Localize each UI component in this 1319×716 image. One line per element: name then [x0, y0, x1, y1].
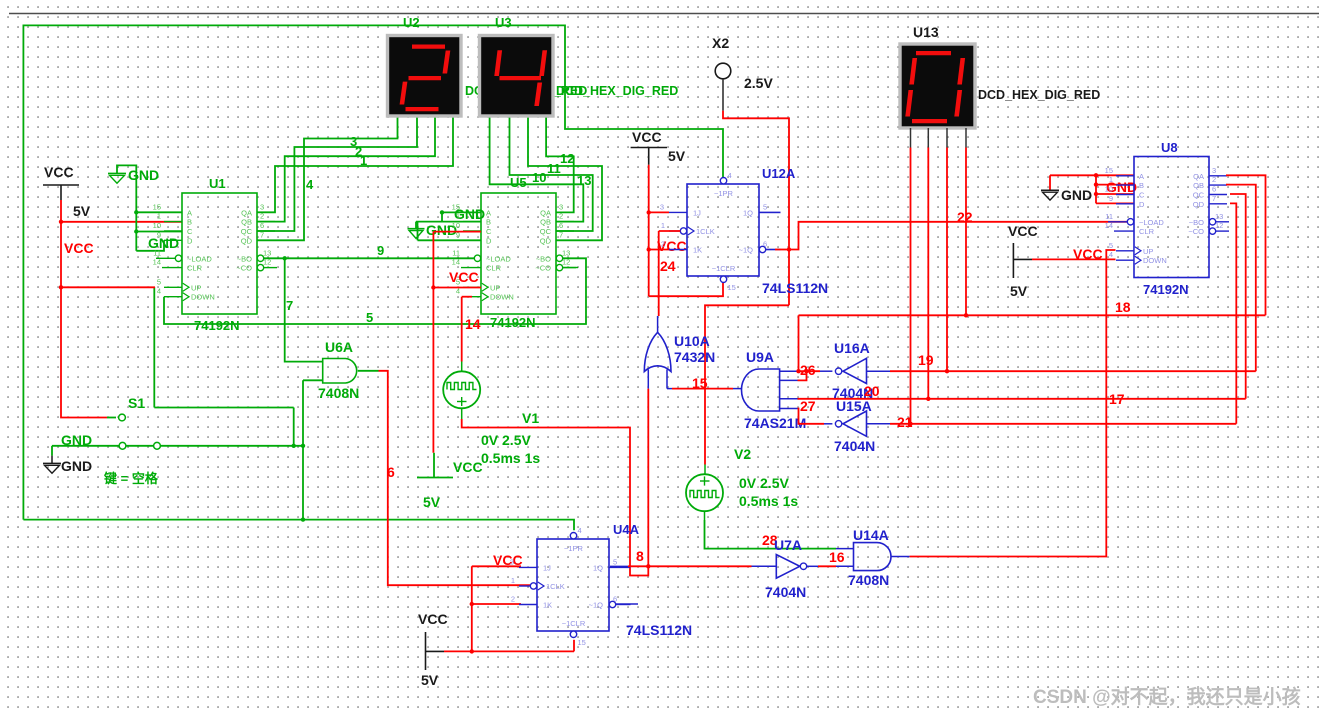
- svg-text:U8: U8: [1161, 140, 1178, 155]
- wire U14A out to U8 UP: [910, 250, 1116, 557]
- wire U1 QB to display U2 pin3: [257, 117, 435, 222]
- svg-text:1J: 1J: [693, 208, 701, 217]
- svg-text:3: 3: [510, 557, 514, 566]
- svg-text:2: 2: [511, 595, 515, 604]
- svg-text:14: 14: [452, 258, 460, 267]
- svg-text:CLR: CLR: [187, 264, 203, 273]
- svg-text:5V: 5V: [668, 148, 686, 164]
- svg-text:QA: QA: [1193, 172, 1204, 181]
- svg-text:GND: GND: [61, 432, 92, 448]
- svg-text:15: 15: [1105, 166, 1113, 175]
- svg-text:U14A: U14A: [853, 527, 889, 543]
- svg-text:DCD_HEX_DIG_RED: DCD_HEX_DIG_RED: [978, 88, 1100, 102]
- svg-text:U15A: U15A: [836, 398, 872, 414]
- svg-text:~BO: ~BO: [237, 254, 252, 263]
- svg-text:QC: QC: [241, 227, 253, 236]
- svg-text:~CO: ~CO: [236, 264, 252, 273]
- wire net 16 U7A out to U14A input B: [807, 565, 818, 567]
- svg-text:QA: QA: [241, 208, 252, 217]
- svg-text:~BO: ~BO: [1189, 218, 1204, 227]
- svg-text:U9A: U9A: [746, 349, 774, 365]
- wire U8 QA stub red extension: [1226, 174, 1230, 176]
- svg-text:VCC: VCC: [418, 611, 448, 627]
- inverter U15A 7404N (pointing left): [843, 411, 867, 436]
- svg-text:14: 14: [153, 258, 161, 267]
- svg-text:UP: UP: [490, 283, 500, 292]
- wire net 6 U6A out to U4A 1CLK: [379, 371, 531, 585]
- svg-text:4: 4: [306, 177, 314, 192]
- svg-text:3: 3: [660, 202, 664, 211]
- svg-text:0V 2.5V: 0V 2.5V: [481, 432, 531, 448]
- counter U1 74192N: [182, 193, 257, 314]
- svg-text:1CLK: 1CLK: [546, 582, 565, 591]
- svg-text:7408N: 7408N: [318, 385, 359, 401]
- svg-text:UP: UP: [191, 283, 201, 292]
- svg-text:12: 12: [560, 151, 574, 166]
- svg-text:5: 5: [366, 310, 373, 325]
- svg-text:12: 12: [562, 258, 570, 267]
- wire U5 QB to display U3 pin1: [490, 117, 584, 222]
- svg-text:~LOAD: ~LOAD: [1139, 218, 1164, 227]
- svg-text:7404N: 7404N: [765, 584, 806, 600]
- svg-text:V1: V1: [522, 410, 539, 426]
- svg-text:4: 4: [728, 171, 732, 180]
- svg-text:8: 8: [636, 548, 644, 564]
- svg-text:74192N: 74192N: [194, 318, 240, 333]
- wire U6A output stub: [358, 370, 379, 372]
- svg-text:~LOAD: ~LOAD: [486, 254, 511, 263]
- svg-text:20: 20: [864, 383, 880, 399]
- switch S1: [61, 287, 107, 417]
- svg-text:DOWN: DOWN: [191, 293, 215, 302]
- svg-text:QB: QB: [241, 218, 252, 227]
- svg-text:14: 14: [1105, 221, 1113, 230]
- svg-text:10: 10: [532, 170, 546, 185]
- svg-text:9: 9: [157, 230, 161, 239]
- flip-flop U4A 74LS112N: [537, 539, 609, 631]
- svg-text:CSDN @对不起，我还只是小孩: CSDN @对不起，我还只是小孩: [1033, 685, 1301, 708]
- svg-text:GND: GND: [61, 458, 92, 474]
- svg-text:3: 3: [350, 134, 357, 149]
- svg-text:22: 22: [957, 209, 973, 225]
- svg-text:15: 15: [578, 638, 586, 647]
- svg-text:5: 5: [157, 277, 161, 286]
- wire U5 ~CO open stub: [562, 267, 578, 269]
- counter U5 74192N: [481, 193, 556, 314]
- wire U1 QC to display U2 pin2: [257, 117, 417, 231]
- svg-text:QD: QD: [540, 236, 552, 245]
- svg-text:D: D: [486, 236, 492, 245]
- ground symbol GND (green, above U1): [117, 165, 136, 212]
- svg-text:3: 3: [260, 202, 264, 211]
- svg-text:QB: QB: [1193, 181, 1204, 190]
- svg-text:VCC: VCC: [632, 129, 662, 145]
- wire U13 pin3 stub: [946, 128, 948, 148]
- clock source V1: [461, 362, 463, 372]
- svg-text:27: 27: [800, 398, 816, 414]
- svg-text:5: 5: [763, 202, 767, 211]
- svg-text:U10A: U10A: [674, 333, 710, 349]
- svg-text:74AS21M: 74AS21M: [744, 415, 806, 431]
- svg-text:QD: QD: [1193, 200, 1205, 209]
- svg-text:U1: U1: [209, 176, 226, 191]
- wire U9A input stubs (right side): [780, 370, 798, 372]
- svg-text:6: 6: [613, 595, 617, 604]
- svg-text:VCC: VCC: [1008, 223, 1038, 239]
- display U2 seven-segment: [388, 36, 462, 117]
- wire net 27 U15A output to U9A input 4: [798, 409, 825, 424]
- flip-flop U12A 74LS112N: [687, 184, 759, 276]
- svg-text:QA: QA: [540, 208, 551, 217]
- svg-text:X2: X2: [712, 35, 729, 51]
- svg-text:B: B: [1139, 181, 1144, 190]
- svg-text:1Q: 1Q: [743, 208, 753, 217]
- wire U8 QB stub red extension: [1226, 184, 1230, 186]
- wire U1 QA to display U2 pin4: [257, 117, 453, 212]
- wire U10A input stubs: [647, 370, 649, 389]
- svg-text:10: 10: [153, 221, 161, 230]
- wire net 26 U16A output to U9A input 1: [798, 370, 821, 372]
- svg-text:9: 9: [377, 243, 384, 258]
- svg-text:0.5ms 1s: 0.5ms 1s: [481, 450, 540, 466]
- wire U5 QC to display U3 pin2: [510, 117, 593, 231]
- svg-text:CLR: CLR: [486, 264, 502, 273]
- inverter U7A 7404N (pointing right): [776, 555, 800, 579]
- and-gate U14A 7408N: [854, 543, 892, 571]
- wire U13 pin2 stub: [927, 128, 929, 148]
- wire net 18 U8 QA to U9A inputs and U13 pin4: [798, 315, 800, 371]
- svg-text:键 = 空格: 键 = 空格: [103, 471, 159, 486]
- svg-text:~LOAD: ~LOAD: [187, 254, 212, 263]
- svg-text:2.5V: 2.5V: [744, 75, 773, 91]
- inverter U16A 7404N (pointing left): [843, 358, 867, 383]
- counter U8 74192N (blue): [1134, 157, 1209, 278]
- svg-text:7432N: 7432N: [674, 349, 715, 365]
- svg-text:A: A: [187, 208, 192, 217]
- svg-text:16: 16: [829, 549, 845, 565]
- wire net 15 U9A out to U10A input B: [667, 388, 672, 390]
- wire net 8 U4A 1Q to U7A input: [628, 565, 752, 567]
- wire net 20 / 17 U8 QC to U9A input 3 and U13 pin2: [798, 398, 1246, 400]
- svg-text:1Q: 1Q: [593, 563, 603, 572]
- svg-text:7404N: 7404N: [834, 438, 875, 454]
- svg-text:~BO: ~BO: [536, 254, 551, 263]
- svg-text:S1: S1: [128, 395, 145, 411]
- svg-text:1K: 1K: [693, 246, 702, 255]
- wire border net (U12A ~1PR to U4A ~1PR loop): [23, 25, 723, 519]
- svg-text:DCD_HEX_DIG_RED: DCD_HEX_DIG_RED: [556, 84, 678, 98]
- svg-text:3: 3: [1212, 166, 1216, 175]
- svg-text:5: 5: [613, 557, 617, 566]
- svg-text:74192N: 74192N: [490, 315, 536, 330]
- svg-text:4: 4: [157, 287, 161, 296]
- svg-text:QC: QC: [1193, 191, 1205, 200]
- svg-text:10: 10: [1105, 185, 1113, 194]
- svg-text:6: 6: [763, 240, 767, 249]
- svg-text:DOWN: DOWN: [1143, 256, 1167, 265]
- display U3 seven-segment: [480, 36, 554, 117]
- wire net 22 U12A ~1Q to U8 ~LOAD: [766, 249, 775, 251]
- svg-text:U7A: U7A: [774, 537, 802, 553]
- wire U13 pin1 stub: [910, 128, 912, 148]
- wire U13 pin4 stub: [965, 128, 967, 148]
- svg-text:5V: 5V: [73, 203, 91, 219]
- svg-text:UP: UP: [1143, 247, 1153, 256]
- svg-text:~1PR: ~1PR: [564, 544, 584, 553]
- svg-text:1J: 1J: [543, 563, 551, 572]
- svg-text:6: 6: [1212, 185, 1216, 194]
- wire U5 QD to display U3 pin3: [528, 117, 602, 240]
- svg-text:10: 10: [452, 221, 460, 230]
- svg-text:C: C: [1139, 191, 1145, 200]
- svg-text:D: D: [1139, 200, 1145, 209]
- and-gate U9A 74AS21M (4-input, pointing left): [742, 369, 780, 411]
- svg-text:CLR: CLR: [1139, 227, 1155, 236]
- svg-text:11: 11: [1105, 212, 1113, 221]
- ground symbol GND (green, above U5): [415, 222, 417, 229]
- wire net 19 U13 pin3 / U8 QB to U16A input: [867, 370, 891, 372]
- svg-text:13: 13: [263, 248, 271, 257]
- svg-text:VCC: VCC: [449, 269, 479, 285]
- svg-text:18: 18: [1115, 299, 1131, 315]
- svg-text:0V 2.5V: 0V 2.5V: [739, 475, 789, 491]
- svg-text:U4A: U4A: [613, 522, 640, 537]
- wire net 14 V1 to U5 DOWN: [462, 296, 472, 298]
- svg-text:~1PR: ~1PR: [714, 189, 734, 198]
- wire net 8 vertical to U10A input A: [647, 389, 649, 567]
- svg-text:5V: 5V: [1010, 283, 1028, 299]
- svg-text:GND: GND: [1061, 187, 1092, 203]
- wire V2 minus to U14A input A: [705, 520, 837, 549]
- wire VCC to U8 DOWN: [1032, 258, 1116, 260]
- svg-text:13: 13: [577, 173, 591, 188]
- svg-text:74192N: 74192N: [1143, 282, 1189, 297]
- wire VCC to U12A 1J 1K ~1CLR: [648, 165, 650, 296]
- power VCC (red wire net to U5 pins C and UP): [433, 231, 481, 233]
- svg-text:~1CLR: ~1CLR: [562, 619, 586, 628]
- svg-text:17: 17: [1109, 391, 1125, 407]
- svg-text:U5: U5: [510, 175, 527, 190]
- svg-text:14: 14: [465, 316, 481, 332]
- svg-text:5V: 5V: [423, 494, 441, 510]
- wire net 5 U5 ~BO to U1 DOWN: [164, 258, 586, 324]
- svg-text:1: 1: [511, 576, 515, 585]
- svg-text:1K: 1K: [543, 601, 552, 610]
- svg-text:11: 11: [452, 248, 460, 257]
- svg-text:QB: QB: [540, 218, 551, 227]
- wire U1 GND net to pins A C D: [135, 212, 137, 251]
- svg-text:11: 11: [153, 248, 161, 257]
- svg-text:13: 13: [562, 248, 570, 257]
- display U13 seven-segment: [900, 44, 975, 128]
- svg-text:DOWN: DOWN: [490, 293, 514, 302]
- svg-text:15: 15: [452, 202, 460, 211]
- wire U1 QD to display U2 pin1: [257, 117, 398, 240]
- wire X2 to U12A ~1Q / V2 net: [723, 111, 789, 306]
- svg-text:7: 7: [286, 298, 293, 313]
- wire net 21 U8 QD to U15A input and U13 pin1: [867, 423, 891, 425]
- wire U8 GND net to pins A B C D: [1050, 174, 1096, 176]
- svg-text:24: 24: [660, 258, 676, 274]
- svg-text:3: 3: [559, 202, 563, 211]
- ground symbol GND (black, left of U8): [1049, 175, 1051, 190]
- wire net 24 U10A out to U12A 1CLK: [659, 230, 681, 232]
- svg-text:D: D: [187, 236, 193, 245]
- svg-text:U12A: U12A: [762, 166, 796, 181]
- svg-text:9: 9: [1109, 194, 1113, 203]
- wire X2 stem (black): [722, 79, 724, 111]
- svg-text:VCC: VCC: [453, 459, 483, 475]
- svg-text:QD: QD: [241, 236, 253, 245]
- wire VCC to U4A 1J 1K ~1CLR: [444, 650, 574, 652]
- svg-text:~CO: ~CO: [1188, 227, 1204, 236]
- svg-text:QC: QC: [540, 227, 552, 236]
- wire U9A input 2 jumper: [798, 371, 807, 380]
- wire U14A output stub: [891, 556, 910, 558]
- svg-text:U6A: U6A: [325, 339, 353, 355]
- svg-text:VCC: VCC: [493, 552, 523, 568]
- svg-text:1: 1: [661, 221, 665, 230]
- svg-text:VCC: VCC: [64, 240, 94, 256]
- svg-text:7408N: 7408N: [848, 572, 889, 588]
- clock source V2: [686, 474, 723, 511]
- svg-text:VCC: VCC: [44, 164, 74, 180]
- svg-text:74LS112N: 74LS112N: [762, 280, 828, 296]
- svg-text:C: C: [187, 227, 193, 236]
- svg-text:2: 2: [661, 240, 665, 249]
- svg-text:~1Q: ~1Q: [589, 601, 604, 610]
- wire U10A output stub (blue): [657, 316, 659, 332]
- svg-text:C: C: [486, 227, 492, 236]
- or-gate U10A 7432N (pointing up): [644, 332, 671, 371]
- svg-text:~1CLR: ~1CLR: [712, 264, 736, 273]
- svg-text:2: 2: [1212, 175, 1216, 184]
- wire VCC rail to U1 pins B and UP: [60, 200, 62, 287]
- svg-text:15: 15: [153, 202, 161, 211]
- svg-text:A: A: [1139, 172, 1144, 181]
- wire net 9 U1 ~BO to U5 ~LOAD: [264, 257, 474, 259]
- svg-text:0.5ms 1s: 0.5ms 1s: [739, 493, 798, 509]
- svg-text:5: 5: [1109, 241, 1113, 250]
- and-gate U6A 7408N: [323, 359, 357, 384]
- ground symbol GND (black, bottom left): [51, 456, 53, 464]
- svg-text:1: 1: [157, 212, 161, 221]
- svg-text:74LS112N: 74LS112N: [626, 622, 692, 638]
- svg-text:15: 15: [728, 283, 736, 292]
- svg-text:11: 11: [547, 161, 561, 176]
- wire net 7 branch to U6A input A: [285, 258, 323, 361]
- svg-text:~CO: ~CO: [535, 264, 551, 273]
- svg-text:U13: U13: [913, 24, 939, 40]
- svg-text:7: 7: [1212, 194, 1216, 203]
- svg-text:B: B: [486, 218, 491, 227]
- svg-text:U16A: U16A: [834, 340, 870, 356]
- svg-text:A: A: [486, 208, 491, 217]
- svg-text:1: 1: [1109, 175, 1113, 184]
- wire U4A ~1Q open stub: [616, 603, 638, 605]
- wire U5 GND net to pins A B D: [416, 221, 481, 223]
- svg-text:13: 13: [1215, 212, 1223, 221]
- svg-text:4: 4: [1109, 250, 1113, 259]
- svg-text:1CLK: 1CLK: [696, 227, 715, 236]
- svg-text:1: 1: [456, 212, 460, 221]
- svg-text:5V: 5V: [421, 672, 439, 688]
- svg-text:VCC: VCC: [1073, 246, 1103, 262]
- svg-text:U3: U3: [495, 15, 512, 30]
- svg-text:V2: V2: [734, 446, 751, 462]
- svg-text:U2: U2: [403, 15, 420, 30]
- wire U12A 1Q open stub: [759, 211, 781, 213]
- svg-text:19: 19: [918, 352, 934, 368]
- wire V1 minus to net 8 junction: [462, 419, 649, 576]
- power VCC (green symbol under V1): [433, 453, 435, 478]
- svg-text:6: 6: [387, 464, 395, 480]
- svg-text:4: 4: [578, 526, 582, 535]
- svg-text:GND: GND: [128, 167, 159, 183]
- svg-text:B: B: [187, 218, 192, 227]
- svg-text:15: 15: [692, 375, 708, 391]
- wire GND rail with S1 line: [52, 445, 303, 447]
- top frame line: [9, 13, 1319, 15]
- svg-text:12: 12: [1215, 221, 1223, 230]
- probe X2: [715, 63, 731, 79]
- svg-text:~1Q: ~1Q: [739, 246, 754, 255]
- wire U5 QA to display U3 pin4: [546, 117, 574, 212]
